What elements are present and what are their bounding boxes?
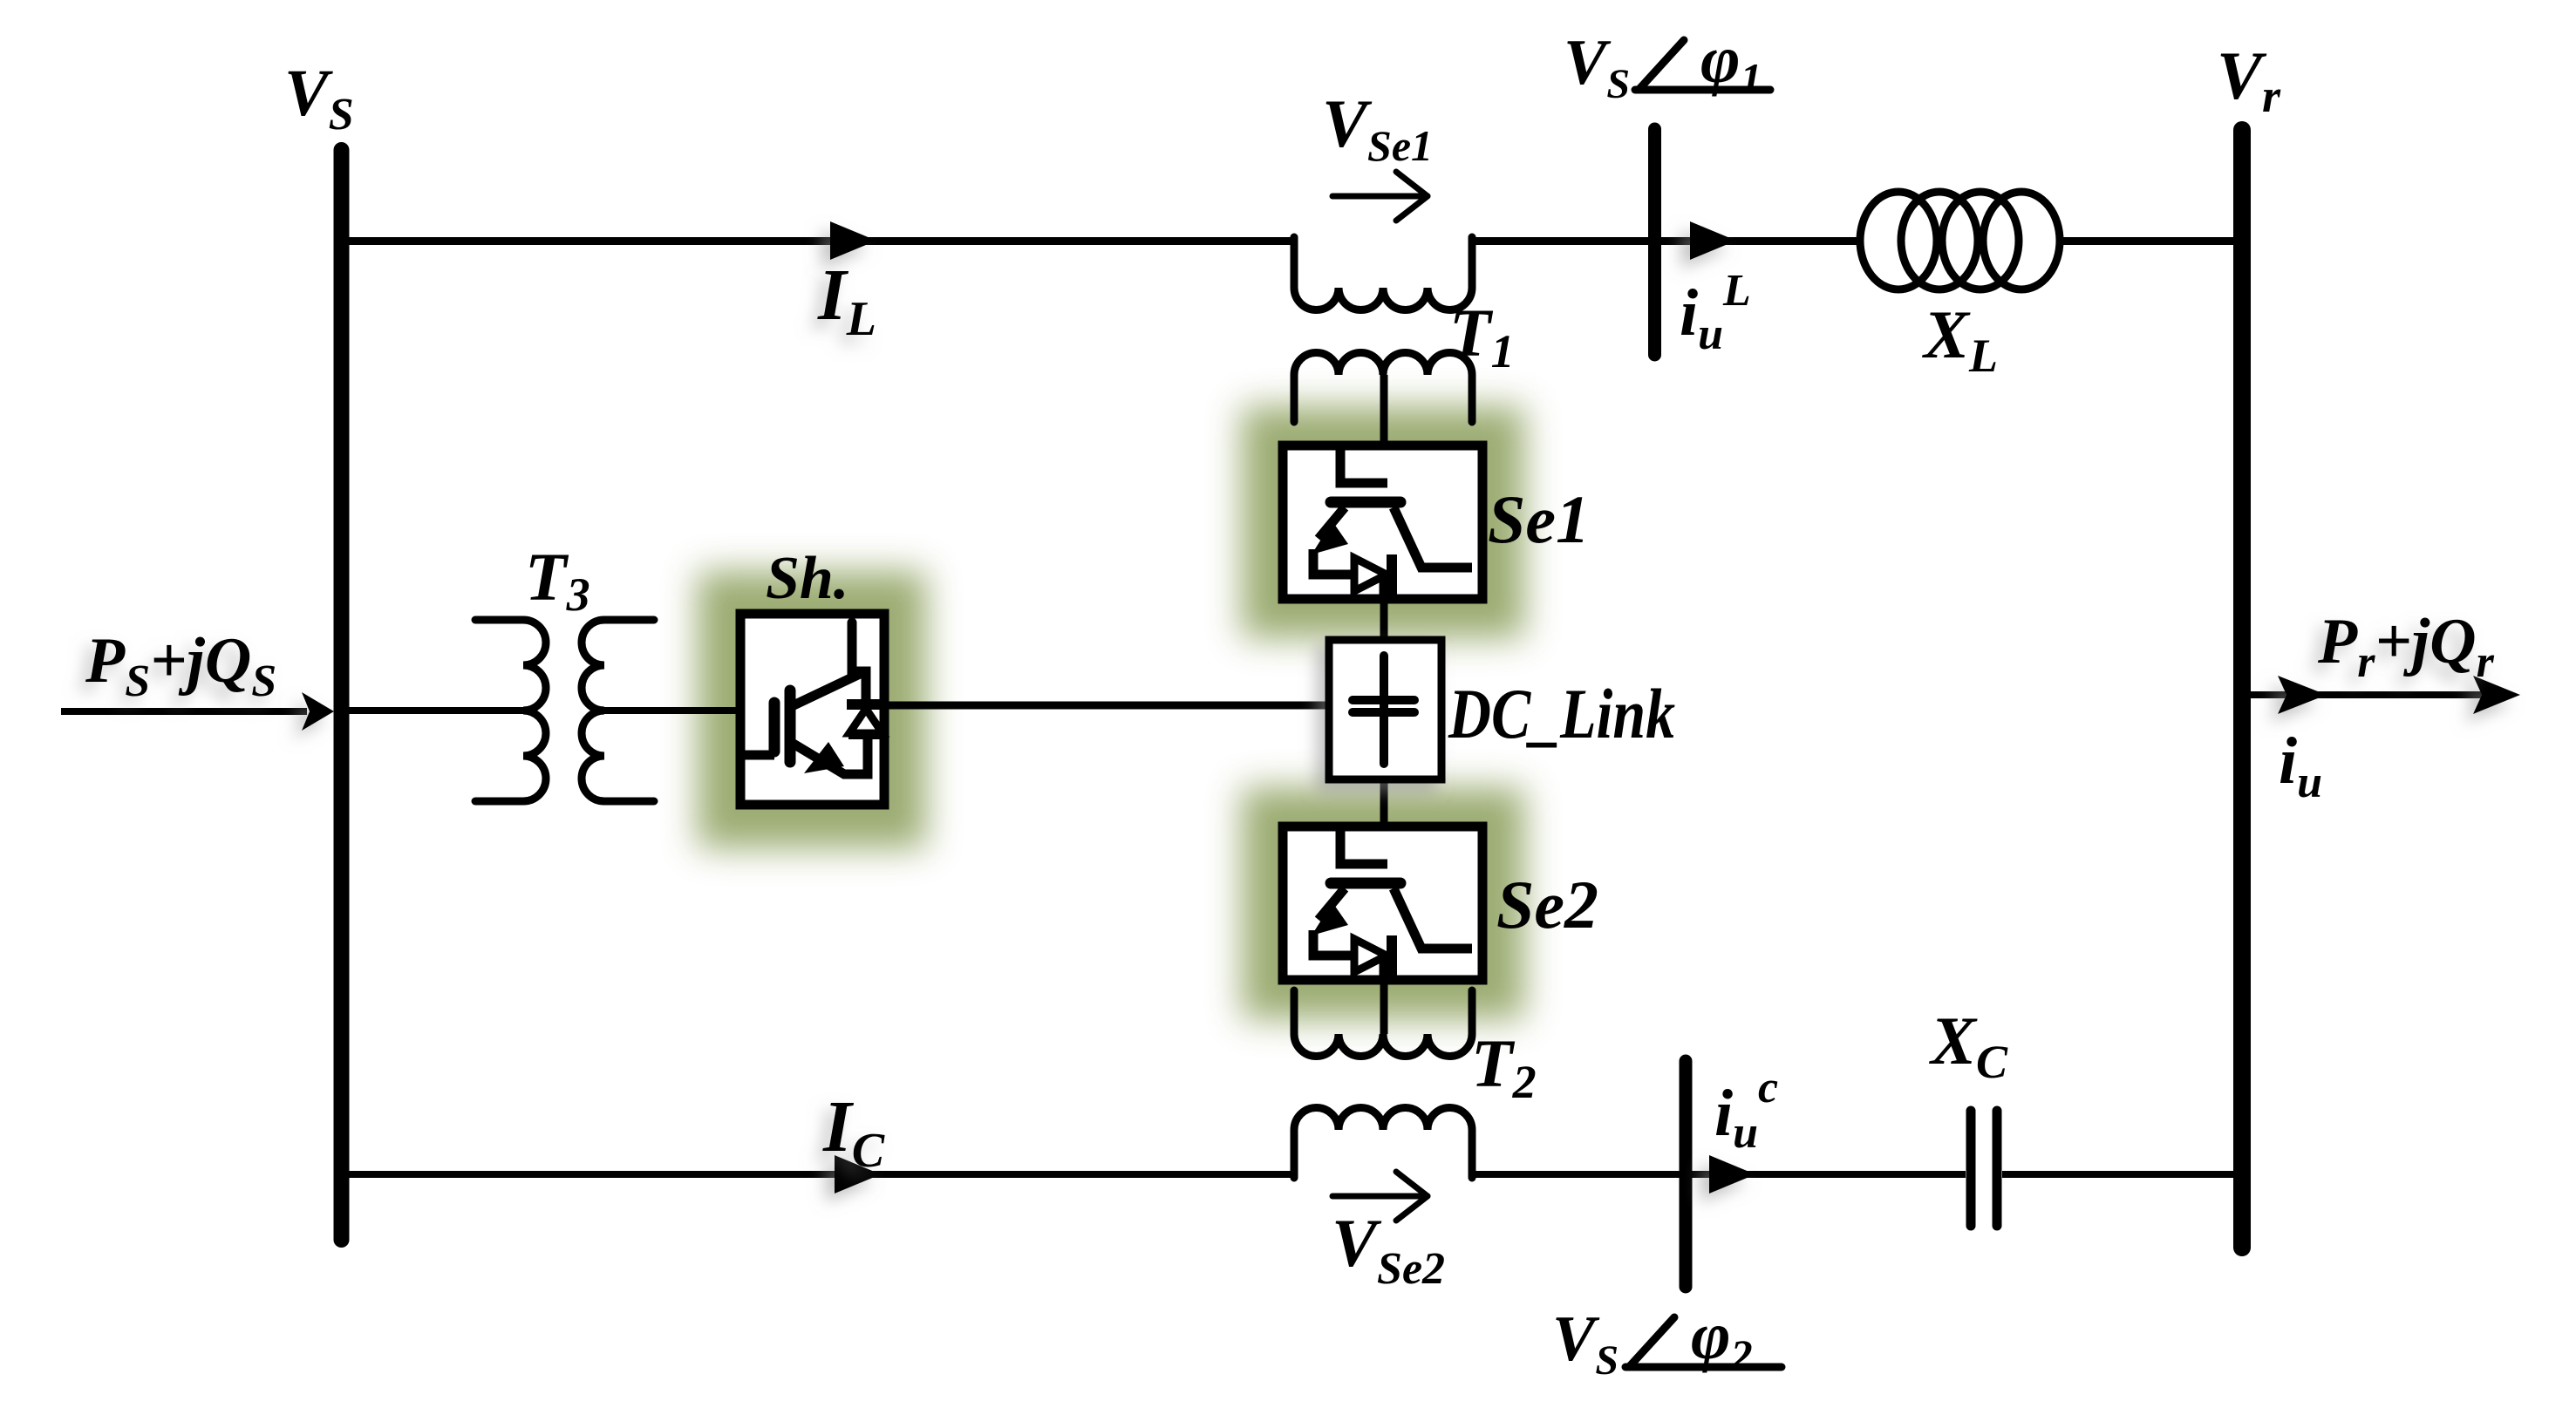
arrowhead IL (830, 221, 876, 260)
node bus VS-phi2 (mini bus bottom) (1680, 1061, 1693, 1287)
svg-text:Se1: Se1 (1488, 481, 1590, 557)
arrowhead Pr line end (2473, 676, 2520, 714)
wire top line: T1 to coil XL (1469, 237, 1858, 245)
wire T1 secondary centre tap to Se1 (1380, 375, 1388, 448)
transformer T1 secondary winding (1294, 353, 1472, 423)
wire bus VS to transformer T3 (347, 707, 523, 714)
converter box Se1 (series VSC 1) (1283, 446, 1482, 599)
IGBT Se2 main bar (1331, 878, 1400, 889)
svg-text:Se2: Se2 (1496, 867, 1598, 942)
IGBT Sh diode cathode bar (847, 699, 884, 710)
capacitor XC plates (1966, 1111, 1976, 1226)
IGBT Se2 arrowhead (1312, 902, 1348, 935)
transformer T3 right winding (582, 620, 654, 801)
transformer T3 left winding (475, 620, 546, 801)
capacitor DC_Link plates (1380, 656, 1388, 764)
glow behind converter Sh. (698, 571, 926, 848)
svg-text:PS+jQS: PS+jQS (85, 625, 276, 706)
IGBT Sh diode triangle (849, 709, 883, 733)
IGBT Sh emitter path (792, 736, 868, 774)
svg-text:DC_Link: DC_Link (1448, 674, 1675, 753)
IGBT Sh emitter arrowhead (804, 742, 844, 773)
converter box Sh. (shunt VSC) (739, 614, 884, 805)
IGBT Se2 bottom wire (1313, 930, 1353, 956)
svg-text:Pr+jQr: Pr+jQr (2317, 606, 2495, 687)
ARROWHEADS (302, 221, 2520, 1194)
inductor XL coil (1860, 192, 2060, 289)
wire converter Sh. to DC link (885, 702, 1332, 710)
glow behind converter Se1 (1242, 406, 1524, 638)
arrowhead iuc after mini bus 2 (1709, 1155, 1755, 1194)
bus Vr (right receiving bus) (2233, 130, 2251, 1248)
IGBT Se2 gate lead (1340, 829, 1387, 864)
IGBT Sh diode anode bar (848, 729, 883, 739)
wire Se1 to DC link (1380, 596, 1388, 643)
IGBT Se1 diode cathode bar (1387, 554, 1397, 595)
IGBT Sh gate bar (769, 703, 780, 752)
wire Se2 to T2 secondary centre tap (1380, 976, 1388, 1034)
wire bottom line: capacitor XC to bus Vr (2002, 1171, 2237, 1178)
IGBT Se1 diode triangle (1354, 558, 1387, 591)
svg-text:Sh.: Sh. (766, 545, 848, 612)
IGBT Se1 bottom wire (1313, 549, 1353, 575)
wire bottom line: T2 to capacitor XC (1469, 1171, 1966, 1178)
wire bottom line IC: bus VS to T2 (347, 1171, 1298, 1178)
symbol angle phi1 (1635, 40, 1770, 90)
IGBT Se2 right diagonal / emitter (1394, 888, 1472, 949)
IGBT Se2 centre tap through box (1380, 956, 1389, 977)
IGBT Sh main bar (785, 690, 796, 762)
arrow VSe1 (series injected voltage 1) (1332, 172, 1428, 221)
arrow VSe2 (series injected voltage 2) (1332, 1172, 1428, 1221)
IGBT Se1 main bar (1331, 497, 1400, 508)
IGBT Se2 left diagonal (1319, 888, 1345, 920)
IGBT Se1 gate lead (1340, 448, 1387, 483)
symbol angle phi2 (1625, 1317, 1782, 1367)
glow behind converter Se2 (1242, 787, 1524, 1019)
IGBT Se1 centre tap through box (1380, 575, 1389, 596)
transformer T2 primary winding (1294, 1108, 1472, 1178)
arrowhead IC (835, 1155, 881, 1194)
wire Pr output line (right of bus Vr) (2247, 691, 2511, 698)
wire top line: coil XL to bus Vr (2061, 237, 2237, 245)
bus VS (left sending bus) (334, 150, 350, 1240)
capacitor DC_Link box (1329, 640, 1441, 779)
wire DC link to Se2 (1380, 777, 1388, 830)
arrowhead Pr at bus Vr (2278, 676, 2327, 714)
IGBT Se1 arrowhead (1312, 521, 1348, 554)
IGBT Se1 left diagonal (1319, 507, 1345, 539)
IGBT Sh collector lead (852, 622, 866, 703)
wire middle PS feed line (left of bus VS) (61, 708, 307, 715)
transformer T2 secondary winding (1294, 990, 1472, 1057)
arrowhead iuL after mini bus 1 (1690, 221, 1736, 260)
arrowhead PS into bus VS (302, 692, 334, 731)
node bus VS-phi1 (mini bus top) (1648, 129, 1661, 355)
transformer T1 primary winding (1294, 237, 1472, 310)
IGBT Se2 diode triangle (1354, 939, 1387, 972)
IGBT Sh gate lead (739, 751, 774, 760)
converter box Se2 (series VSC 2) (1283, 826, 1482, 980)
wire T3 to converter Sh. (604, 707, 739, 714)
IGBT Se2 diode cathode bar (1387, 935, 1397, 976)
wire top line IL: bus VS to T1 (347, 237, 1298, 245)
IGBT Se1 right diagonal / emitter (1394, 507, 1472, 568)
